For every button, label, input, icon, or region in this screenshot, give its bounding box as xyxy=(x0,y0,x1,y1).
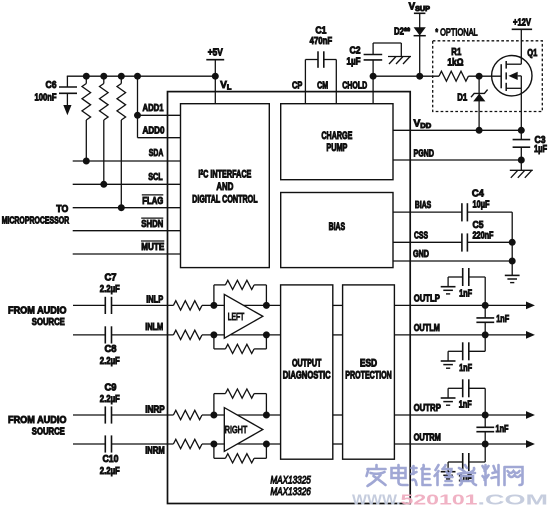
svg-text:OUTRM: OUTRM xyxy=(414,433,441,444)
svg-text:BIAS: BIAS xyxy=(415,200,431,211)
svg-text:PROTECTION: PROTECTION xyxy=(345,369,392,381)
svg-text:INLM: INLM xyxy=(145,322,163,333)
svg-text:1µF: 1µF xyxy=(534,144,547,155)
svg-text:VSUP: VSUP xyxy=(409,2,430,13)
svg-text:FLAG: FLAG xyxy=(142,196,163,207)
svg-text:C2: C2 xyxy=(350,46,361,57)
svg-text:AND: AND xyxy=(216,181,233,193)
svg-text:C10: C10 xyxy=(103,454,119,465)
svg-text:2.2µF: 2.2µF xyxy=(100,394,120,405)
svg-text:SDA: SDA xyxy=(149,148,164,159)
svg-text:* OPTIONAL: * OPTIONAL xyxy=(435,28,478,39)
svg-text:CP: CP xyxy=(292,81,302,92)
svg-text:I2C INTERFACE: I2C INTERFACE xyxy=(198,168,251,181)
svg-text:100nF: 100nF xyxy=(35,93,57,104)
svg-text:10µF: 10µF xyxy=(473,200,490,211)
svg-text:2.2µF: 2.2µF xyxy=(100,356,120,367)
svg-text:MICROPROCESSOR: MICROPROCESSOR xyxy=(2,216,70,227)
svg-text:BIAS: BIAS xyxy=(329,221,346,233)
svg-text:ADD0: ADD0 xyxy=(143,125,165,136)
svg-text:INRM: INRM xyxy=(145,445,165,456)
svg-text:OUTLM: OUTLM xyxy=(414,323,440,334)
svg-text:1nF: 1nF xyxy=(496,314,509,325)
svg-text:1nF: 1nF xyxy=(459,363,472,374)
svg-text:OUTLP: OUTLP xyxy=(414,294,440,305)
svg-text:220nF: 220nF xyxy=(473,230,494,241)
svg-text:C7: C7 xyxy=(105,272,117,283)
svg-text:ESD: ESD xyxy=(360,357,378,369)
svg-text:MUTE: MUTE xyxy=(141,242,164,253)
svg-text:1nF: 1nF xyxy=(496,424,509,435)
svg-text:OUTRP: OUTRP xyxy=(414,403,441,414)
svg-text:DIAGNOSTIC: DIAGNOSTIC xyxy=(283,369,331,381)
svg-text:SOURCE: SOURCE xyxy=(32,317,65,328)
svg-text:INLP: INLP xyxy=(146,295,163,306)
svg-text:CSS: CSS xyxy=(414,230,428,241)
svg-text:CHARGE: CHARGE xyxy=(321,130,352,142)
svg-text:VDD: VDD xyxy=(414,119,432,131)
svg-text:RIGHT: RIGHT xyxy=(225,425,248,436)
svg-text:C6: C6 xyxy=(46,80,57,91)
svg-text:FROM AUDIO: FROM AUDIO xyxy=(8,415,67,426)
svg-text:520101: 520101 xyxy=(401,493,478,509)
svg-text:C8: C8 xyxy=(105,344,117,355)
svg-text:470nF: 470nF xyxy=(310,36,333,47)
svg-text:SHDN: SHDN xyxy=(141,219,163,230)
svg-text:MAX13326: MAX13326 xyxy=(270,486,311,498)
svg-text:SOURCE: SOURCE xyxy=(32,427,65,438)
svg-text:D2**: D2** xyxy=(394,27,410,38)
svg-text:OUTPUT: OUTPUT xyxy=(292,357,322,369)
svg-text:GND: GND xyxy=(413,249,429,260)
svg-text:1nF: 1nF xyxy=(459,288,472,299)
svg-text:CHOLD: CHOLD xyxy=(342,81,367,92)
svg-text:VL: VL xyxy=(220,80,232,91)
svg-text:INRP: INRP xyxy=(145,404,165,415)
svg-text:WWW.: WWW. xyxy=(352,493,401,509)
svg-text:1µF: 1µF xyxy=(347,56,361,67)
svg-text:+12V: +12V xyxy=(513,18,531,29)
svg-text:MAX13325: MAX13325 xyxy=(270,475,311,487)
svg-text:+5V: +5V xyxy=(208,48,223,59)
svg-text:1kΩ: 1kΩ xyxy=(447,57,463,68)
svg-text:C5: C5 xyxy=(473,220,484,231)
svg-text:C4: C4 xyxy=(472,189,484,200)
svg-text:TO: TO xyxy=(56,204,68,215)
svg-text:CM: CM xyxy=(317,81,328,92)
svg-text:2.2µF: 2.2µF xyxy=(100,284,120,295)
svg-text:FROM AUDIO: FROM AUDIO xyxy=(8,305,67,316)
svg-text:ADD1: ADD1 xyxy=(143,103,164,114)
svg-text:2.2µF: 2.2µF xyxy=(100,466,120,477)
svg-text:PGND: PGND xyxy=(414,149,435,160)
svg-text:LEFT: LEFT xyxy=(228,312,245,323)
svg-text:.COM: .COM xyxy=(478,493,549,509)
svg-text:Q1: Q1 xyxy=(527,48,537,59)
svg-text:C9: C9 xyxy=(105,382,117,393)
svg-text:1nF: 1nF xyxy=(459,400,472,411)
svg-text:SCL: SCL xyxy=(148,172,163,183)
svg-text:DIGITAL CONTROL: DIGITAL CONTROL xyxy=(192,193,258,205)
svg-text:PUMP: PUMP xyxy=(326,142,347,154)
svg-text:D1: D1 xyxy=(457,92,467,103)
